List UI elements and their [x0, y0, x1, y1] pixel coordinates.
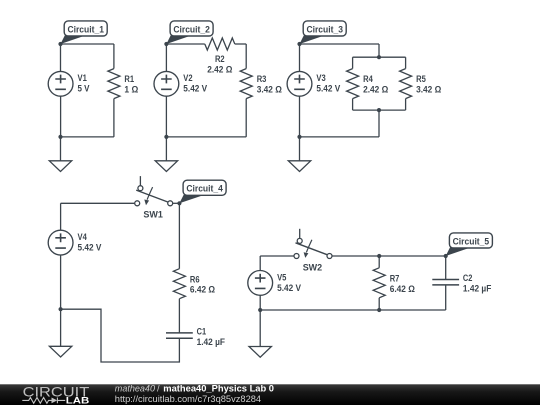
net label callout Circuit_3 box [303, 21, 346, 36]
CircuitLab logo resistor-diode glyph [22, 398, 52, 404]
svg-text:3.42 Ω: 3.42 Ω [257, 85, 282, 95]
svg-text:R3: R3 [257, 74, 267, 84]
wire circuit2 ground lead [165, 137, 167, 161]
svg-text:R5: R5 [416, 74, 426, 84]
svg-text:6.42 Ω: 6.42 Ω [190, 285, 215, 295]
wire R7 bottom lead [378, 298, 380, 310]
svg-text:Circuit_2: Circuit_2 [173, 24, 210, 35]
svg-text:/: / [157, 384, 160, 394]
svg-text:R4: R4 [363, 74, 373, 84]
wire SW1 to node [172, 202, 179, 204]
node circuit3 parallel top junction [377, 55, 381, 59]
wire V1 top lead [60, 44, 62, 71]
node circuit3 parallel bottom junction [377, 108, 381, 112]
resistor R7 zigzag [373, 268, 385, 298]
wire R7 top lead [378, 256, 380, 268]
resistor R3 zigzag [240, 69, 252, 99]
wire circuit4 ground lead [60, 309, 62, 346]
net label callout Circuit_4 box [183, 180, 226, 195]
svg-text:Circuit_3: Circuit_3 [306, 24, 343, 35]
svg-text:mathea40: mathea40 [115, 384, 156, 394]
wire circuit5 bottom rail [260, 309, 446, 311]
node circuit2 bottom junction [164, 135, 168, 139]
svg-text:C2: C2 [463, 273, 473, 283]
capacitor C2 [432, 280, 459, 285]
wire circuit4 bottom return [61, 309, 180, 362]
svg-text:5.42 V: 5.42 V [277, 283, 301, 293]
node circuit2 top junction [164, 42, 168, 46]
resistor R6 zigzag [173, 269, 185, 299]
svg-text:R1: R1 [124, 74, 134, 84]
voltage source V2 5.42 V [154, 71, 179, 96]
wire V5 bottom lead [259, 295, 261, 310]
resistor R1 zigzag [108, 69, 120, 99]
net label callout Circuit_1 pointer [61, 35, 86, 44]
switch SW2 [294, 229, 332, 259]
svg-text:1.42 µF: 1.42 µF [197, 337, 226, 347]
wire circuit3 parallel top connector [353, 56, 406, 58]
node circuit1 top junction [58, 42, 62, 46]
svg-text:5.42 V: 5.42 V [78, 243, 102, 253]
svg-text:1.42 µF: 1.42 µF [463, 283, 492, 293]
svg-text:Circuit_5: Circuit_5 [453, 236, 490, 247]
wire circuit3 top rail [300, 43, 380, 45]
net label callout Circuit_2 pointer [166, 35, 191, 44]
wire R3 bottom lead [245, 99, 247, 137]
resistor R2 zigzag [205, 38, 235, 50]
net label callout Circuit_3 pointer [300, 35, 325, 44]
net label callout Circuit_2 box [170, 21, 213, 36]
wire R4 top lead [352, 57, 354, 68]
wire R5 top lead [405, 57, 407, 68]
node circuit5 C2 top junction [444, 254, 448, 258]
wire circuit3 top drop [378, 44, 380, 57]
voltage source V5 5.42 V [248, 271, 273, 296]
switch SW1 [135, 176, 173, 206]
svg-text:SW1: SW1 [143, 210, 163, 220]
resistor R5 zigzag [400, 69, 412, 99]
ground circuit1 [49, 161, 71, 172]
node circuit3 top junction [297, 42, 301, 46]
wire SW2 to C2 node [332, 255, 446, 257]
ground circuit2 [155, 161, 177, 172]
node circuit3 bottom junction [297, 135, 301, 139]
wire circuit5 ground lead [259, 310, 261, 347]
capacitor C1 [166, 333, 193, 338]
wire circuit4 top rail to SW1 [61, 202, 135, 204]
svg-text:5.42 V: 5.42 V [183, 84, 207, 94]
wire R1 bottom lead [113, 99, 115, 137]
wire circuit1 top rail [61, 43, 114, 45]
ground circuit5 [249, 347, 271, 358]
net label callout Circuit_5 box [449, 233, 492, 248]
svg-text:3.42 Ω: 3.42 Ω [416, 85, 441, 95]
wire circuit2 top-left rail [166, 43, 204, 45]
svg-text:SW2: SW2 [303, 262, 323, 272]
node circuit4 bottom junction [59, 307, 63, 311]
wire circuit3 bottom rail [300, 136, 380, 138]
wire V4 bottom lead [60, 255, 62, 309]
wire V5 top lead [259, 256, 261, 271]
net label callout Circuit_5 pointer [446, 247, 471, 256]
svg-text:V3: V3 [316, 73, 325, 83]
wire V2 top lead [165, 44, 167, 71]
wire V4 top lead [60, 203, 62, 230]
svg-text:V2: V2 [183, 73, 192, 83]
svg-text:V4: V4 [78, 232, 87, 242]
svg-text:C1: C1 [197, 327, 207, 337]
svg-text:2.42 Ω: 2.42 Ω [363, 85, 388, 95]
wire R5 bottom lead [405, 99, 407, 111]
voltage source V4 5.42 V [48, 230, 73, 255]
svg-text:V1: V1 [78, 73, 87, 83]
wire circuit1 ground lead [60, 137, 62, 161]
svg-text:V5: V5 [277, 272, 286, 282]
node circuit4 top-right junction [177, 201, 181, 205]
net label callout Circuit_1 box [64, 21, 107, 36]
svg-text:R6: R6 [190, 274, 200, 284]
wire R2 right lead [235, 43, 246, 45]
wire circuit3 bottom drop [378, 110, 380, 137]
svg-text:2.42 Ω: 2.42 Ω [207, 64, 232, 74]
node circuit5 R7 top junction [377, 254, 381, 258]
wire V3 bottom lead [299, 96, 301, 137]
voltage source V3 5.42 V [287, 71, 312, 96]
svg-text:LAB: LAB [66, 396, 90, 405]
svg-text:http://circuitlab.com/c7r3q85v: http://circuitlab.com/c7r3q85vz8284 [115, 394, 261, 404]
svg-text:Circuit_1: Circuit_1 [67, 24, 104, 35]
node circuit5 R7 bottom junction [377, 308, 381, 312]
svg-text:R2: R2 [215, 54, 225, 64]
wire R6 to C1 [178, 299, 180, 333]
svg-text:1 Ω: 1 Ω [124, 85, 138, 95]
wire circuit2 bottom rail [166, 136, 246, 138]
node circuit5 bottom-left junction [258, 308, 262, 312]
wire circuit5 top rail to SW2 [260, 255, 294, 257]
wire circuit3 ground lead [299, 137, 301, 161]
svg-text:mathea40_Physics Lab 0: mathea40_Physics Lab 0 [163, 384, 274, 394]
wire V2 bottom lead [165, 96, 167, 137]
svg-text:R7: R7 [390, 273, 400, 283]
svg-text:5.42 V: 5.42 V [316, 84, 340, 94]
wire circuit1 bottom rail [61, 136, 114, 138]
voltage source V1 5 V [48, 71, 73, 96]
svg-text:6.42 Ω: 6.42 Ω [390, 284, 415, 294]
node circuit1 bottom junction [58, 135, 62, 139]
svg-text:5 V: 5 V [78, 84, 90, 94]
wire V1 bottom lead [60, 96, 62, 137]
wire C2 bottom lead [445, 285, 447, 310]
wire R3 top lead [245, 44, 247, 69]
ground circuit3 [288, 161, 310, 172]
resistor R4 zigzag [347, 69, 359, 99]
ground circuit4 [49, 346, 71, 357]
wire R1 top lead [113, 44, 115, 69]
wire C2 top lead [445, 256, 447, 280]
wire circuit3 parallel bottom connector [353, 109, 406, 111]
wire V3 top lead [299, 44, 301, 71]
wire R4 bottom lead [352, 99, 354, 111]
net label callout Circuit_4 pointer [179, 195, 204, 204]
wire R6 top lead [178, 203, 180, 268]
svg-text:Circuit_4: Circuit_4 [186, 184, 223, 195]
